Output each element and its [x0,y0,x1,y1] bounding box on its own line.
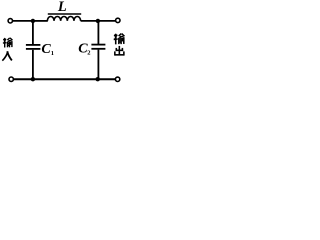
node D (junction bottom of C2) [96,77,100,81]
terminal (output, top-right) [116,18,120,22]
terminal (input, top-left) [8,19,12,23]
label 输出 (output) [114,34,125,45]
inductor L core bar [48,13,81,15]
svg-text:L: L [57,0,67,15]
node C (junction bottom of C1) [31,77,35,81]
wire: node A to inductor [33,20,48,22]
background [0,0,129,87]
wire: inductor to node B [81,20,98,22]
capacitor C1 bottom lead [32,50,34,79]
capacitor C1 plates [26,44,41,46]
svg-text:1: 1 [51,50,54,57]
capacitor C2 plates [91,44,105,46]
terminal (output, bottom-right) [115,77,119,81]
capacitor C2 top lead [97,21,99,44]
terminal (input, bottom-left) [9,77,13,81]
bottom wire [14,78,116,80]
capacitor C1 top lead [32,21,34,44]
wire top-left: terminal to node A [13,20,33,22]
label 输入 (input) [3,38,13,48]
capacitor C2 bottom lead [97,50,99,80]
wire top-right: node B to terminal [98,20,116,22]
svg-text:2: 2 [87,50,90,57]
node B (junction top of C2) [96,19,100,23]
node A (junction top of C1) [31,19,35,23]
inductor L (winding) [47,16,80,20]
